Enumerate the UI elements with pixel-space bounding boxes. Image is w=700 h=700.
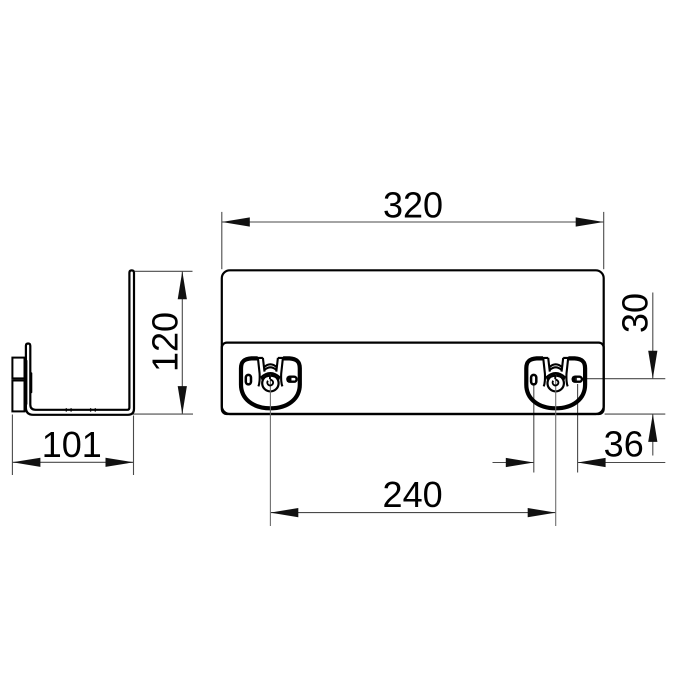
svg-text:120: 120 [145, 312, 186, 372]
svg-text:240: 240 [383, 474, 443, 515]
svg-text:101: 101 [42, 424, 102, 465]
svg-text:30: 30 [615, 293, 656, 333]
svg-text:36: 36 [604, 423, 644, 464]
svg-text:320: 320 [383, 185, 443, 226]
